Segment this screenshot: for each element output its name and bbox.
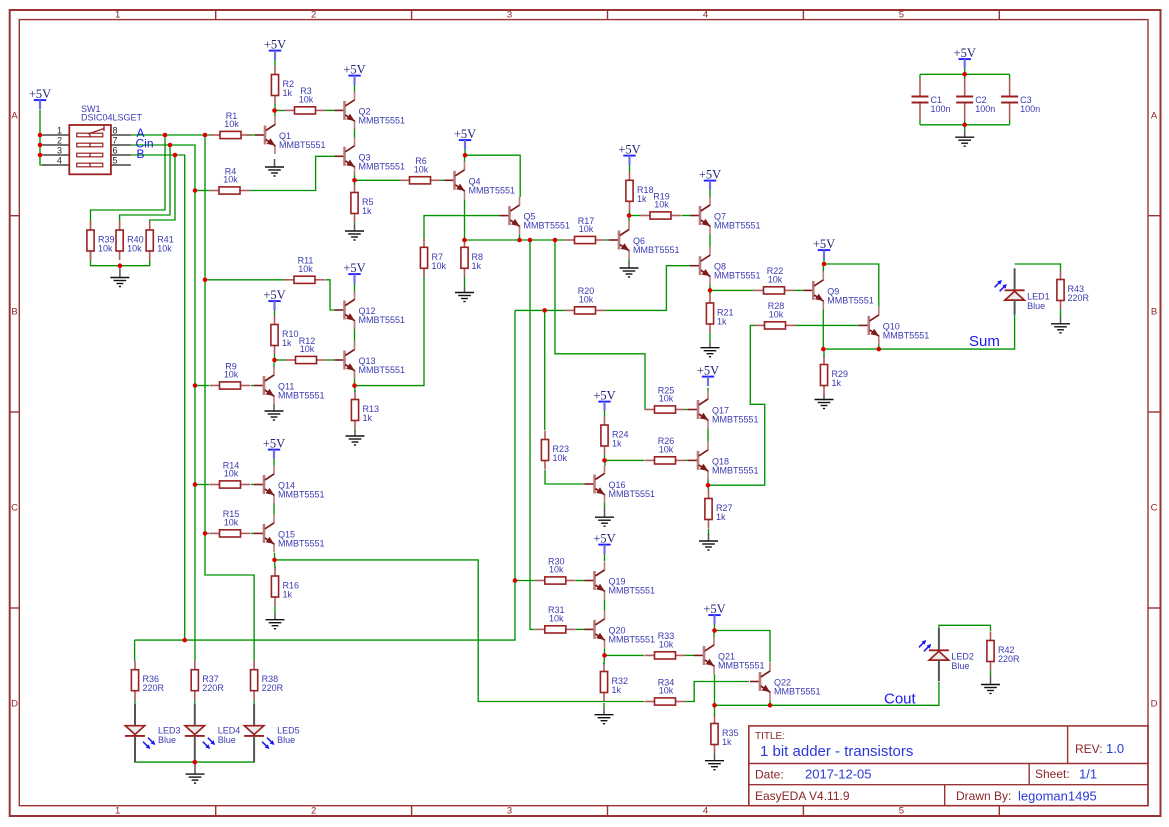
wire Q9 collector to node [822, 264, 824, 272]
svg-text:10k: 10k [769, 310, 784, 320]
ground G7 Q11 [265, 405, 284, 420]
svg-text:MMBT5551: MMBT5551 [827, 295, 874, 305]
transistor Q19 [585, 562, 656, 600]
svg-text:+5V: +5V [263, 288, 285, 302]
wire R29 top joint [823, 349, 825, 357]
wire +5V to Q7 collector [709, 188, 711, 198]
svg-text:1k: 1k [637, 194, 647, 204]
ground G2 Q1 [265, 159, 284, 176]
wire Q4 emitter to sum bus [464, 200, 466, 241]
ground G12 R29 [815, 395, 834, 409]
resistor R24 1k [601, 416, 629, 455]
resistor R34 10k [645, 677, 686, 705]
svg-text:C: C [11, 503, 18, 514]
resistor R29 1k [820, 356, 848, 395]
svg-text:1k: 1k [283, 590, 293, 600]
svg-text:B: B [1151, 307, 1157, 318]
wire R38 bottom to LED5 [253, 700, 255, 704]
wire +5V node Q4 [464, 147, 466, 155]
wire Q22 emitter drop [769, 701, 771, 706]
svg-text:10k: 10k [223, 175, 238, 185]
svg-text:B: B [137, 147, 145, 161]
wire R12 to Q13 base [327, 359, 335, 361]
wire +5V to Q9 collector node [823, 257, 825, 264]
svg-text:MMBT5551: MMBT5551 [279, 140, 326, 150]
wire R4 to Q3 base run [250, 156, 335, 190]
wire R13 bottom to ground [354, 430, 356, 433]
svg-text:+5V: +5V [813, 237, 835, 251]
wire cap C1 bottom joint [919, 120, 921, 125]
wire R14 to Q14 base [251, 484, 254, 486]
wire R11 to Q12 base [326, 280, 335, 310]
svg-text:MMBT5551: MMBT5551 [469, 185, 516, 195]
wire R20 node drop to R23 [544, 310, 546, 430]
svg-text:100n: 100n [975, 104, 995, 114]
svg-text:5: 5 [899, 806, 904, 817]
wire +5V to R10 top [274, 309, 276, 316]
ground G11 R43 [1051, 317, 1070, 333]
svg-text:+5V: +5V [343, 261, 365, 275]
capacitor C3 100n [1001, 79, 1040, 121]
svg-text:Blue: Blue [951, 661, 969, 671]
wire R16 bottom to ground [274, 606, 276, 614]
capacitor C2 100n [956, 79, 995, 121]
wire R21 top from node [709, 290, 711, 294]
wire Q1 collector to R2 node [274, 111, 276, 118]
junction pin2 +5V [38, 143, 43, 148]
wire R2 top feed [274, 59, 276, 67]
resistor R4 10k [209, 166, 250, 194]
svg-text:100n: 100n [1020, 104, 1040, 114]
svg-text:10k: 10k [98, 244, 113, 254]
wire Q6 emitter to ground [628, 258, 630, 263]
wire R34 to Q22 base [686, 682, 750, 702]
wire R38 top feed [253, 651, 255, 661]
transistor Q8 [690, 247, 761, 285]
wire R28 left loop to Q18 node [708, 325, 765, 485]
svg-text:2: 2 [57, 136, 62, 146]
junction R40 bottom node [118, 263, 123, 268]
wire net B drop to R41 [150, 155, 175, 231]
transistor Q9 [803, 271, 874, 309]
svg-text:1: 1 [57, 126, 62, 136]
junction R35 top node [712, 703, 717, 708]
svg-text:+5V: +5V [699, 168, 721, 182]
wire R20 node drop to R30 [135, 310, 515, 640]
svg-text:MMBT5551: MMBT5551 [609, 586, 656, 596]
svg-text:220R: 220R [262, 683, 284, 693]
svg-text:1k: 1k [612, 685, 622, 695]
ground G5 Q6 [620, 262, 639, 277]
wire LED1 rail [1015, 264, 1061, 271]
wire cap C1 top joint [919, 74, 921, 79]
junction R18 bottom node [627, 213, 632, 218]
wire R6 to Q4 base [441, 179, 445, 181]
wire Q8 emitter to node [709, 284, 711, 290]
junction A row 2 [203, 133, 208, 138]
power +5V P5 R18 [618, 143, 640, 165]
wire R30 lead [515, 580, 535, 582]
svg-text:10k: 10k [659, 394, 674, 404]
junction LED4 cathode node [193, 760, 198, 765]
wire R16 top joint [274, 560, 277, 568]
junction Q21 +5V node [712, 628, 717, 633]
svg-text:10k: 10k [549, 565, 564, 575]
wire R4 output to Q3 base [195, 190, 209, 192]
wire Q21 collector to node [713, 631, 715, 638]
wire R26 row [605, 459, 645, 461]
svg-text:10k: 10k [414, 165, 429, 175]
resistor R7 10k [420, 238, 446, 277]
svg-text:A: A [1151, 111, 1158, 122]
LED LED4 [185, 704, 241, 762]
svg-text:8: 8 [113, 126, 118, 136]
wire R30 to Q19 base [576, 580, 585, 582]
svg-text:Blue: Blue [158, 735, 176, 745]
wire Q7 emitter to Q8 collector [709, 234, 711, 247]
transistor Q21 [694, 636, 765, 674]
resistor R23 10k [541, 431, 569, 470]
junction R9 tap [193, 383, 198, 388]
svg-text:100n: 100n [931, 104, 951, 114]
junction pin3 +5V [38, 153, 43, 158]
power +5V P1 SW1 [29, 87, 51, 109]
svg-text:1k: 1k [472, 261, 482, 271]
resistor R15 10k [210, 509, 251, 537]
wire R5 bottom to ground [354, 223, 356, 227]
ground G4 R8 [455, 287, 474, 302]
junction R24 bottom node [602, 458, 607, 463]
svg-text:10k: 10k [224, 469, 239, 479]
svg-text:1k: 1k [716, 512, 726, 522]
wire R42 bottom to ground [990, 671, 992, 677]
svg-text:10k: 10k [579, 295, 594, 305]
wire R21 bottom to ground [709, 333, 711, 342]
wire Q5 emitter to bus [519, 235, 521, 241]
svg-text:10k: 10k [224, 370, 239, 380]
junction Cin row [168, 143, 173, 148]
wire cap C2 bottom joint [964, 120, 966, 125]
wire R5 top joint [354, 180, 356, 185]
transistor Q17 [688, 391, 759, 429]
ground G14 R32 [595, 709, 614, 724]
svg-text:3: 3 [57, 146, 62, 156]
power +5V P6 Q7 [699, 168, 721, 190]
junction R15 tap [203, 531, 208, 536]
wire Q11 emitter to ground [273, 404, 275, 406]
svg-text:10k: 10k [300, 344, 315, 354]
transistor Q12 [335, 291, 406, 329]
LED LED2 [919, 628, 974, 681]
wire net A long vertical [205, 135, 254, 651]
wire R37 top feed [194, 651, 196, 661]
wire +5V to Q21 node [714, 623, 716, 631]
wire Q6 collector to R18 node [628, 216, 630, 223]
resistor R21 1k [706, 294, 733, 333]
junction R2 bottom node [272, 108, 277, 113]
wire Q3 node to R6 [355, 179, 400, 181]
svg-text:MMBT5551: MMBT5551 [359, 115, 406, 125]
svg-text:2: 2 [311, 9, 316, 20]
svg-text:1: 1 [115, 806, 120, 817]
LED LED1 [995, 268, 1050, 314]
wire R8 bottom to ground [464, 277, 466, 287]
resistor R9 10k [210, 361, 251, 389]
resistor R35 1k [711, 715, 739, 754]
resistor R41 10k [146, 221, 174, 260]
resistor R42 220R [987, 632, 1020, 671]
resistor R13 1k [351, 391, 379, 430]
resistor R18 1k [626, 171, 654, 210]
wire Cin jog to R9 [195, 385, 209, 387]
wire +5V to Q19 collector [604, 552, 606, 561]
resistor R1 10k [210, 111, 251, 139]
svg-text:4: 4 [703, 9, 708, 20]
svg-text:MMBT5551: MMBT5551 [714, 221, 761, 231]
transistor Q11 [254, 367, 325, 405]
power +5V P3 Q2 [343, 63, 365, 85]
wire R15 to Q15 base [251, 532, 254, 534]
wire R25 to Q17 base [686, 409, 689, 411]
svg-text:+5V: +5V [454, 127, 476, 141]
transistor Q22 [750, 663, 821, 701]
junction Q13 emitter node [352, 383, 357, 388]
transistor Q20 [585, 610, 656, 648]
wire R1 to Q1 base [246, 134, 255, 136]
wire Q2 collector feed [354, 84, 356, 92]
svg-text:MMBT5551: MMBT5551 [609, 634, 656, 644]
junction Q9 +5V node [822, 262, 827, 267]
wire R9 to Q11 base [251, 385, 254, 387]
junction Q9 emitter node [821, 347, 826, 352]
svg-text:+5V: +5V [697, 364, 719, 378]
wire R29 bottom to ground [823, 395, 825, 396]
wire R37 bottom to LED4 [194, 700, 196, 704]
wire cap bank ground stub [964, 125, 966, 131]
LED LED5 [244, 704, 300, 762]
wire R32 bottom to ground [603, 703, 605, 709]
svg-text:Drawn By:: Drawn By: [956, 789, 1011, 803]
wire R35 node to Q22 emitter node [715, 704, 771, 706]
junction cap top node [962, 72, 967, 77]
wire R36 bottom to LED3 [134, 700, 136, 704]
resistor R25 10k [645, 385, 686, 413]
wire A jog to R11 [205, 279, 285, 281]
wire Q14 emitter to Q15 collector [273, 503, 275, 515]
wire Q2 emitter to Q3 collector [354, 128, 356, 138]
wire LED rail to R36 [134, 640, 136, 652]
power +5V P9 R10 [263, 288, 285, 310]
svg-text:+5V: +5V [618, 143, 640, 157]
svg-text:Blue: Blue [277, 735, 295, 745]
junction B row [173, 153, 178, 158]
transistor Q15 [254, 514, 325, 552]
wire R8 top to Q4 emitter node [464, 239, 466, 241]
junction B to LED rail [182, 638, 187, 643]
wire +5V to Q12 collector [354, 282, 356, 296]
svg-text:1: 1 [115, 9, 120, 20]
resistor R8 1k [461, 238, 483, 277]
svg-text:MMBT5551: MMBT5551 [524, 221, 571, 231]
wire Q10 emitter to Sum [878, 344, 880, 349]
wire net Cout run [770, 682, 939, 705]
power +5V P4 Q4 [454, 127, 476, 149]
power +5V P12 R24 [593, 389, 615, 411]
wire R28 to Q10 base [796, 324, 859, 326]
resistor R6 10k [400, 156, 441, 184]
wire LED cathode rail [135, 752, 254, 763]
svg-text:legoman1495: legoman1495 [1018, 789, 1097, 804]
transistor Q3 [335, 137, 406, 175]
svg-text:10k: 10k [553, 453, 568, 463]
wire R43 bottom to ground [1060, 310, 1062, 318]
wire +5V to SW1 pins [40, 110, 45, 165]
wire R32 top joint [603, 655, 606, 664]
svg-text:MMBT5551: MMBT5551 [774, 687, 821, 697]
junction R11 tap [203, 278, 208, 283]
ground G16 R42 [981, 676, 1000, 694]
wire R19 to Q7 base [682, 215, 691, 217]
svg-text:C: C [1151, 503, 1158, 514]
wire SW1 pin8 net A [131, 134, 212, 136]
svg-text:10k: 10k [654, 200, 669, 210]
wire net Sum run [823, 314, 1014, 350]
wire net A drop to R39 [91, 135, 166, 231]
transistor Q16 [585, 465, 656, 503]
junction Q22 emitter node [768, 703, 773, 708]
junction bus d2 [553, 238, 558, 243]
wire R23 to Q16 base [545, 470, 585, 484]
power +5V P14 Q19 [593, 532, 615, 554]
wire +5V to R18 top [629, 163, 631, 172]
resistor R36 220R [131, 661, 164, 700]
wire Cin jog to R14 [195, 484, 209, 486]
svg-text:10k: 10k [659, 640, 674, 650]
svg-text:10k: 10k [659, 445, 674, 455]
wire +5V to Q17 collector [707, 388, 709, 392]
junction Q20 emitter node [602, 653, 607, 658]
svg-text:+5V: +5V [703, 602, 725, 616]
LED LED3 [125, 704, 181, 762]
ground G17 LED cathodes [186, 762, 205, 783]
wire R26 to Q18 base [686, 459, 689, 461]
wire R7 riser segment [423, 270, 425, 275]
resistor R30 10k [535, 556, 576, 584]
resistor R32 1k [600, 663, 628, 702]
svg-text:+5V: +5V [263, 437, 285, 451]
wire Q21 +5V rail to Q22 collector [715, 631, 771, 663]
ground G8 R13 [346, 431, 365, 445]
svg-text:5: 5 [113, 156, 118, 166]
wire R36 top feed [134, 652, 136, 661]
resistor R16 1k [271, 567, 299, 606]
DIP switch SW1 DSIC04LSGET [42, 104, 142, 174]
svg-text:10k: 10k [224, 518, 239, 528]
svg-text:220R: 220R [143, 683, 165, 693]
capacitor C1 100n [912, 79, 951, 121]
wire Q4 collector to node [464, 155, 466, 162]
resistor R39 10k [87, 221, 115, 260]
wire R10 bottom to node [274, 355, 276, 361]
resistor R10 1k [271, 316, 299, 355]
ground G6 caps [955, 130, 974, 146]
wire LED4 cathode drop [194, 752, 196, 763]
svg-text:TITLE:: TITLE: [755, 731, 785, 742]
junction pin1 +5V [38, 133, 43, 138]
ground G10 R27 [699, 534, 718, 550]
wire R24 bottom to node [604, 455, 606, 460]
transistor Q7 [690, 197, 761, 235]
wire A net jog to R15 [205, 532, 209, 534]
junction +5V Q4 node [463, 153, 468, 158]
resistor R2 1k [271, 66, 294, 105]
svg-text:4: 4 [703, 806, 708, 817]
wire R31 to Q20 base [576, 628, 585, 630]
junction Q15 emitter node [272, 558, 277, 563]
junction bus Q5 [517, 238, 522, 243]
resistor R17 10k [565, 216, 606, 244]
resistor R22 10k [754, 266, 795, 294]
transistor Q14 [254, 466, 325, 504]
junction A row 1 [163, 133, 168, 138]
wire SW1 pin6 net B [131, 155, 185, 640]
svg-text:MMBT5551: MMBT5551 [714, 271, 761, 281]
wire Q17 emitter to Q18 collector [707, 429, 709, 442]
wire R2 bottom joint [274, 104, 276, 111]
svg-text:10k: 10k [298, 264, 313, 274]
wire Q20 emitter to node [604, 649, 606, 656]
resistor R3 10k [285, 86, 326, 114]
wire cap C3 bottom joint [1009, 120, 1011, 125]
svg-text:1k: 1k [612, 439, 622, 449]
svg-text:+5V: +5V [29, 87, 51, 101]
resistor R27 1k [705, 490, 733, 529]
wire Q13 node to R7 bottom [355, 275, 425, 386]
svg-text:220R: 220R [202, 683, 224, 693]
wire Q15 emitter node to R34 [275, 553, 645, 702]
junction Q3 emitter node [352, 178, 357, 183]
wire Q16 collector to node [604, 460, 606, 466]
wire R22 to Q9 base [795, 289, 804, 291]
svg-text:B: B [11, 307, 17, 318]
wire Q21 emitter to node [714, 675, 716, 706]
svg-text:2: 2 [311, 806, 316, 817]
junction Q8 emitter node [708, 288, 713, 293]
svg-text:Sheet:: Sheet: [1035, 767, 1070, 781]
svg-text:MMBT5551: MMBT5551 [359, 365, 406, 375]
wire R20 to Q8 base [606, 266, 691, 311]
wire cap C2 top joint [964, 74, 966, 79]
svg-text:2017-12-05: 2017-12-05 [805, 767, 872, 782]
svg-text:MMBT5551: MMBT5551 [712, 465, 759, 475]
wire bus drop to R31 [530, 240, 535, 629]
power +5V P2 R2 [264, 38, 286, 60]
wire Q12 emitter to Q13 collector [354, 322, 356, 347]
transistor Q10 [859, 306, 930, 344]
wire Q18 emitter to node [707, 479, 709, 485]
wire R19 row left [629, 215, 640, 217]
svg-text:10k: 10k [299, 95, 314, 105]
transistor Q6 [609, 221, 680, 259]
svg-text:6: 6 [113, 146, 118, 156]
wire SW1 pin7 net Cin [131, 145, 195, 651]
transistor Q5 [500, 197, 571, 235]
svg-text:Cout: Cout [884, 691, 917, 708]
power +5V P8 caps [954, 46, 976, 68]
ground G15 R35 [705, 754, 724, 770]
wire R3 to Q2 base [325, 109, 335, 111]
ground G18 R21 [701, 342, 720, 357]
